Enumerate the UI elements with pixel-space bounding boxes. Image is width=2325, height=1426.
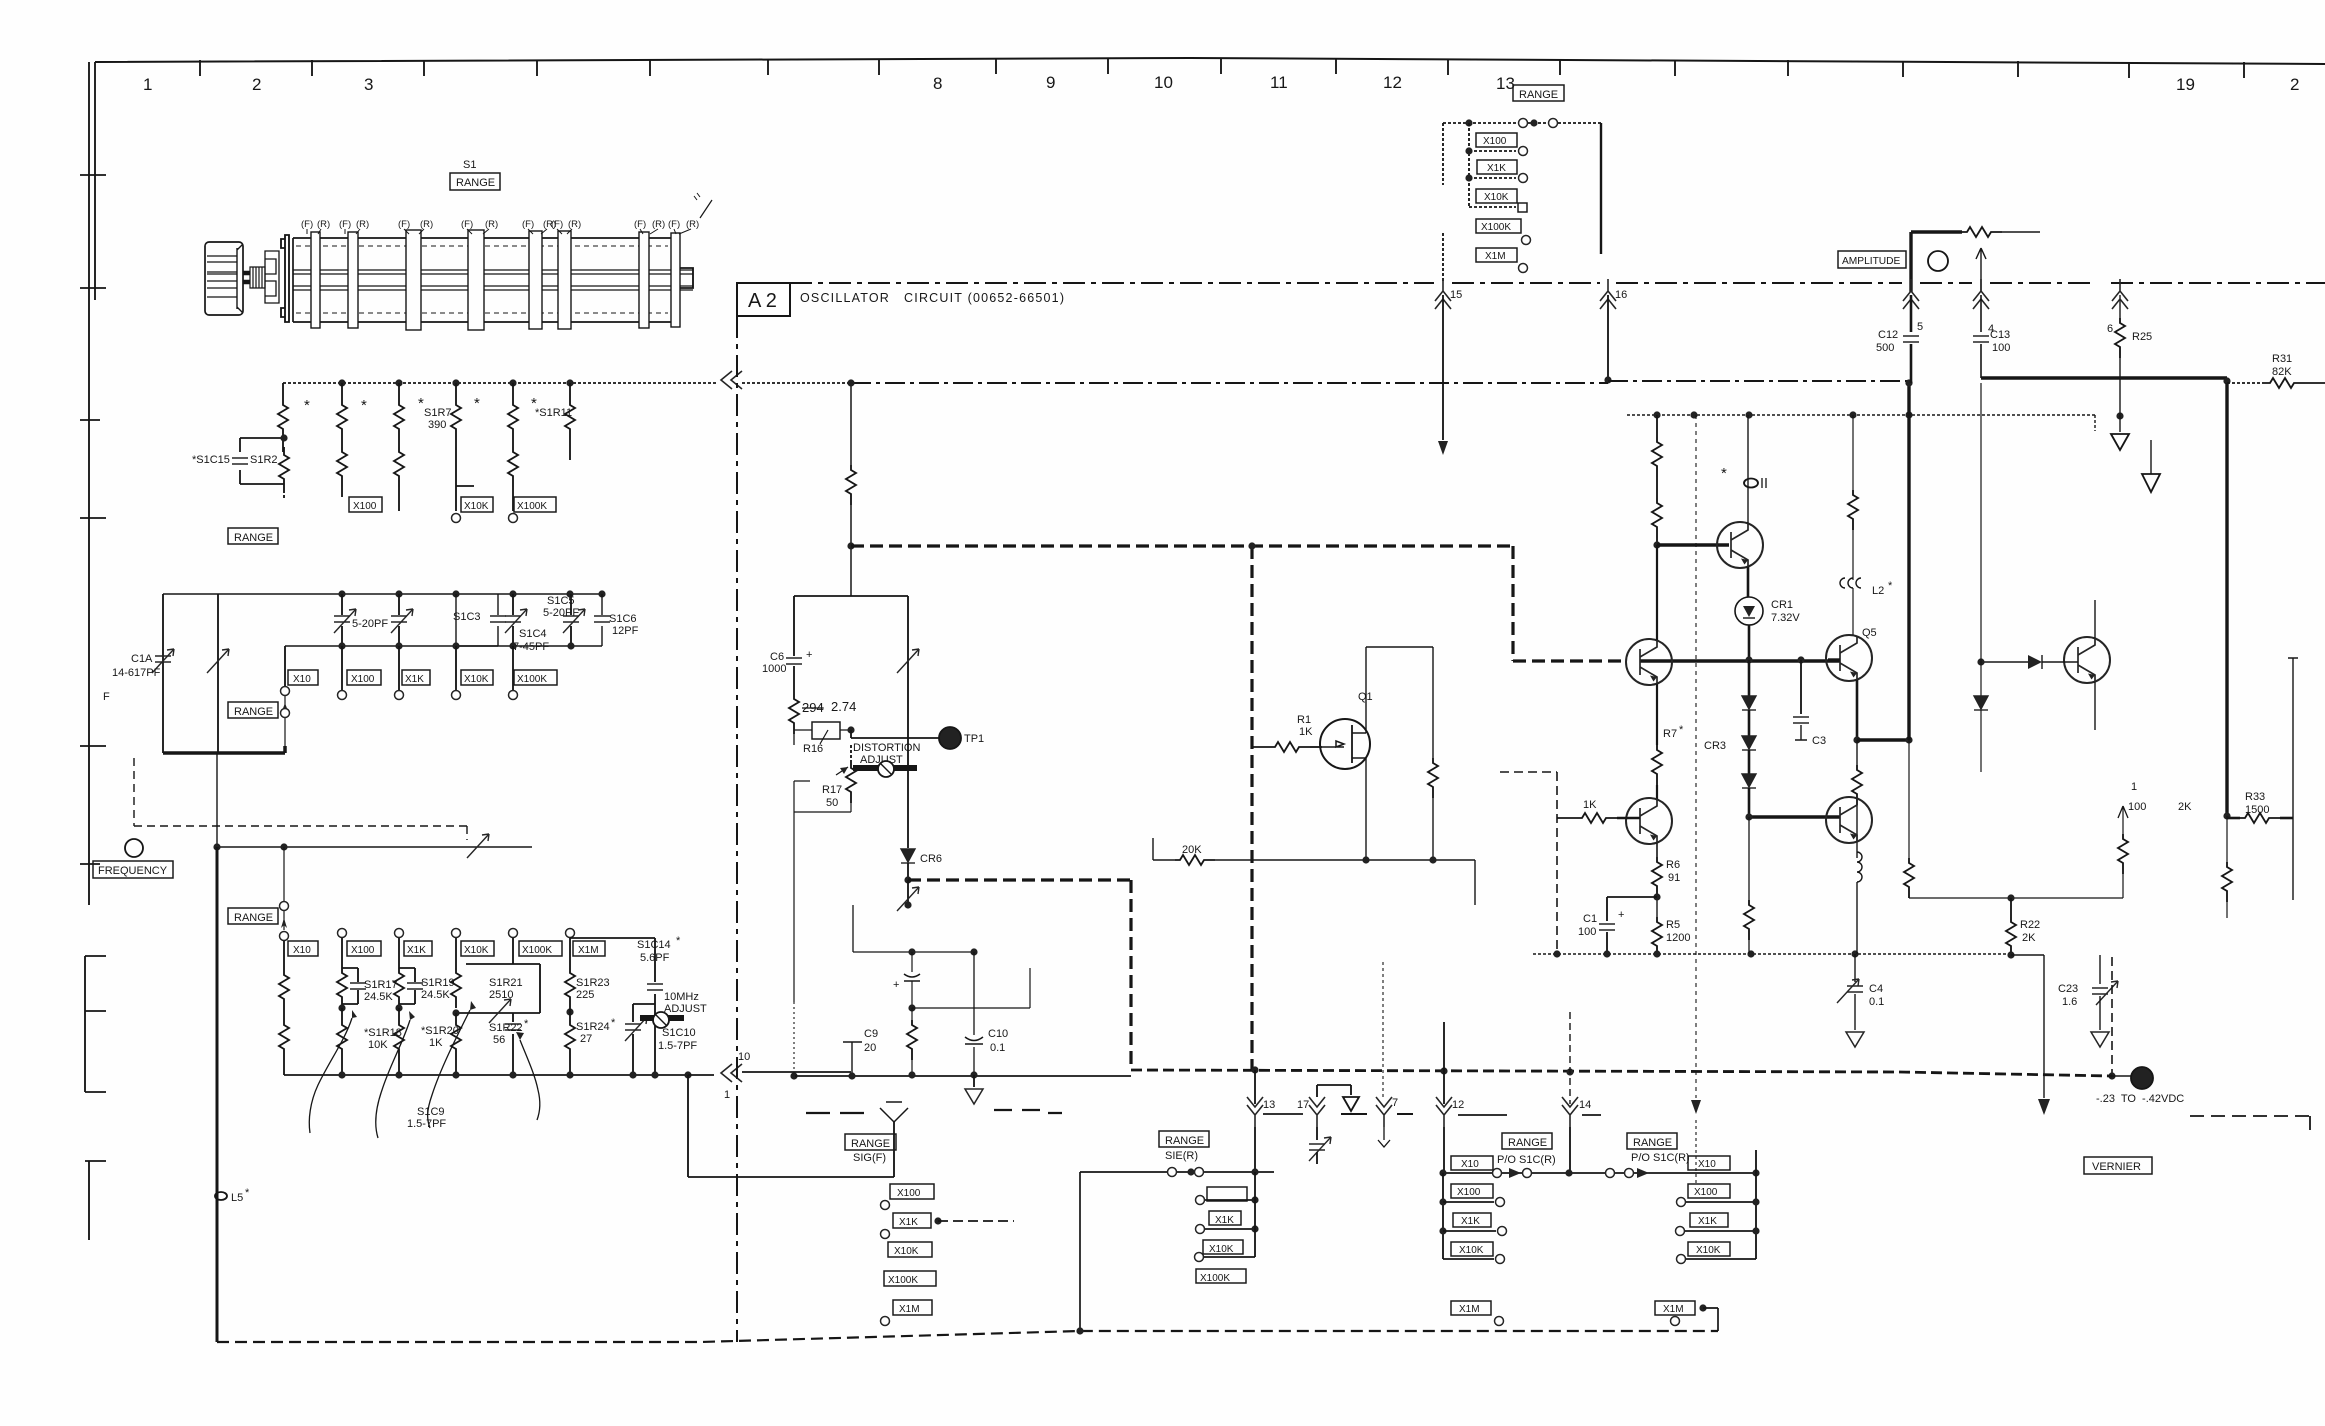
bank1 X1K — [1453, 1213, 1491, 1227]
leader line — [700, 200, 712, 218]
svg-text:7: 7 — [1392, 1097, 1398, 1109]
variable capacitor in tank — [897, 649, 919, 673]
wire: bank1 left column — [1442, 1173, 1444, 1259]
svg-text:*: * — [304, 397, 310, 414]
wiper contact pair on X10 column — [284, 696, 286, 746]
svg-text:FREQUENCY: FREQUENCY — [98, 865, 168, 877]
variable cap below CR6 node — [907, 880, 909, 905]
resistor R33 1500 — [2245, 791, 2269, 816]
svg-text:X10K: X10K — [1484, 192, 1509, 203]
label box X100 + contact — [1476, 133, 1517, 147]
svg-text:16: 16 — [1615, 289, 1627, 301]
svg-text:(R): (R) — [420, 219, 433, 230]
wire: SIG(F) return loop — [688, 1075, 894, 1177]
svg-text:X1K: X1K — [1215, 1215, 1234, 1226]
capacitor C6 1000 (electrolytic) — [786, 658, 802, 664]
svg-text:R22: R22 — [2020, 919, 2040, 931]
svg-text:X100K: X100K — [1481, 222, 1511, 233]
capacitor (electrolytic) x912 — [911, 952, 913, 972]
label box X100 — [349, 497, 382, 512]
capacitor S1C15 parallel box — [240, 438, 284, 484]
svg-text:X10K: X10K — [464, 501, 489, 512]
svg-text:C3: C3 — [1812, 735, 1826, 747]
svg-text:X100K: X100K — [1200, 1273, 1230, 1284]
svg-text:294: 294 — [802, 700, 824, 715]
DISTORTION ADJUST control — [853, 742, 920, 766]
rotor section bands — [311, 230, 680, 330]
wire: heavy vertical to L5 — [216, 847, 219, 1342]
capacitor C12 500 — [1910, 295, 1913, 332]
wire: ladder2 lower bus y=646 — [285, 645, 602, 647]
svg-text:RANGE: RANGE — [234, 532, 273, 544]
svg-text:P/O S1C(R): P/O S1C(R) — [1631, 1152, 1690, 1164]
svg-text:X100: X100 — [351, 945, 375, 956]
svg-text:2K: 2K — [2178, 801, 2192, 813]
trimmer S1C10 1.5-7PF — [633, 1004, 655, 1075]
svg-text:1200: 1200 — [1666, 932, 1690, 944]
svg-text:*: * — [524, 1018, 529, 1030]
resistor R6 91 — [1652, 857, 1662, 897]
svg-text:CR3: CR3 — [1704, 740, 1726, 752]
svg-text:(F): (F) — [301, 219, 313, 230]
svg-text:C6: C6 — [770, 651, 784, 663]
pin 15 chevron — [1435, 279, 1451, 309]
svg-text:S1C5: S1C5 — [547, 595, 575, 607]
node: -23 to -42VDC test point — [2111, 957, 2113, 1076]
resistor S1R18 10K — [338, 1004, 345, 1011]
inductor L5 — [215, 1192, 227, 1200]
switch SIG(F) contact dashes — [806, 1112, 864, 1114]
wire: top border ruler line — [95, 58, 2325, 64]
svg-text:50: 50 — [826, 797, 838, 809]
capacitor C13 100 — [1980, 295, 1982, 332]
svg-text:C9: C9 — [864, 1028, 878, 1040]
wire: Q1 source — [1365, 758, 1367, 860]
wire: X1K wiper link — [934, 1217, 941, 1224]
svg-text:1000: 1000 — [762, 663, 786, 675]
svg-text:7-45PF: 7-45PF — [513, 641, 549, 653]
svg-text:RANGE: RANGE — [851, 1138, 890, 1150]
svg-text:X10: X10 — [1461, 1159, 1479, 1170]
potentiometer element — [1911, 230, 1962, 233]
wire: TP1 stub — [851, 730, 939, 738]
svg-text:19: 19 — [2176, 75, 2195, 94]
svg-text:+: + — [806, 649, 812, 661]
svg-text:14: 14 — [1579, 1099, 1591, 1111]
label box RANGE P/O S1C(R) bank2 — [1627, 1133, 1677, 1149]
svg-text:C12: C12 — [1878, 329, 1898, 341]
wire: emitter ground bus y=954 — [1533, 953, 2012, 955]
svg-text:S1R21: S1R21 — [489, 977, 523, 989]
svg-text:0.1: 0.1 — [1869, 996, 1884, 1008]
wire: stub row y=1008 — [912, 968, 1030, 1008]
svg-text:C1: C1 — [1583, 913, 1597, 925]
trimmer cap x399 — [398, 594, 400, 646]
svg-text:1: 1 — [143, 75, 152, 94]
bank2 X1M with return to bus — [1655, 1301, 1695, 1315]
wire: heavy right column — [2225, 383, 2228, 816]
pin 7 — [1376, 1097, 1392, 1127]
resistor above Q5 — [1852, 415, 1854, 490]
pin 12 — [1443, 1022, 1445, 1104]
capacitor C1A section F (variable) — [162, 594, 164, 753]
capacitor C23 1.6 — [2099, 955, 2101, 984]
wire: Q2 collector to rail — [1747, 415, 1749, 523]
svg-text:*: * — [676, 935, 681, 947]
svg-text:X100K: X100K — [522, 945, 552, 956]
bank2 X100 — [1688, 1184, 1730, 1198]
transistor Q3 (upper left) — [1626, 639, 1672, 685]
switch S1 label — [463, 159, 476, 171]
svg-text:X10K: X10K — [1696, 1245, 1721, 1256]
svg-text:(R): (R) — [652, 219, 665, 230]
svg-text:R31: R31 — [2272, 353, 2292, 365]
svg-text:X10K: X10K — [1459, 1245, 1484, 1256]
svg-text:ADJUST: ADJUST — [664, 1003, 707, 1015]
svg-text:6: 6 — [2107, 323, 2113, 335]
svg-text:17: 17 — [1297, 1099, 1309, 1111]
wire: heavy link to supply column — [1857, 738, 1909, 741]
svg-text:15: 15 — [1450, 289, 1462, 301]
(F)(R) leader ticks — [307, 229, 691, 234]
svg-text:S1C14: S1C14 — [637, 939, 671, 951]
A2 assembly boundary (dash-dot) — [790, 282, 2325, 284]
wire: x456 L-stub to X10K contact — [456, 447, 474, 511]
node: drive junction — [213, 843, 220, 850]
resistor S1R11 — [512, 383, 514, 400]
bank1 X10K — [1451, 1242, 1493, 1256]
svg-text:5: 5 — [1917, 321, 1923, 333]
svg-text:+: + — [1618, 909, 1624, 921]
resistor R22 2K — [2010, 898, 2012, 917]
label box FREQUENCY — [93, 861, 173, 878]
inductor L2 lower half — [1857, 852, 1862, 882]
transistor Q4 (lower left) — [1626, 798, 1672, 844]
svg-text:-.23 TO -.42VDC: -.23 TO -.42VDC — [2096, 1093, 2184, 1105]
svg-text:13: 13 — [1263, 1099, 1275, 1111]
capacitor S1C6 12PF — [601, 594, 603, 646]
wiper contacts on X10 column — [283, 847, 285, 930]
resistor column x513 bottom — [508, 447, 518, 487]
svg-text:2K: 2K — [2022, 932, 2036, 944]
wire: bank2 contact row — [1569, 1172, 1756, 1174]
capacitor body — [293, 238, 672, 322]
svg-text:225: 225 — [576, 989, 594, 1001]
svg-text:0.1: 0.1 — [990, 1042, 1005, 1054]
resistor S1R24 27 — [566, 1008, 573, 1015]
wire: heavy base wire to Q2 — [1657, 543, 1729, 546]
svg-text:56: 56 — [493, 1034, 505, 1046]
svg-text:VERNIER: VERNIER — [2092, 1161, 2141, 1173]
wiper Y contact SIG(F) — [880, 1102, 908, 1122]
resistor 1K base feed — [1557, 817, 1577, 819]
wire: heavy bottom bar of C1A frame — [163, 746, 285, 753]
svg-text:12PF: 12PF — [612, 625, 639, 637]
pin 5 — [1903, 279, 1919, 309]
svg-text:R6: R6 — [1666, 859, 1680, 871]
pin 14 — [1569, 1012, 1571, 1104]
svg-text:5.6PF: 5.6PF — [640, 952, 670, 964]
svg-text:1K: 1K — [429, 1037, 443, 1049]
resistor Q6 emitter load — [1856, 740, 1858, 765]
svg-text:X1K: X1K — [1698, 1216, 1717, 1227]
svg-text:S1R24: S1R24 — [576, 1021, 610, 1033]
svg-text:11: 11 — [1270, 73, 1288, 92]
svg-text:X10: X10 — [293, 945, 311, 956]
wiper arrow pin4 — [1976, 248, 1986, 292]
svg-text:R17: R17 — [822, 784, 842, 796]
resistor S1R20 1K — [395, 1004, 402, 1011]
wire: R22 top link — [1909, 897, 2123, 899]
svg-text:13: 13 — [1496, 74, 1515, 93]
svg-text:*: * — [361, 397, 367, 414]
svg-text:500: 500 — [1876, 342, 1894, 354]
wire: Q3 emitter down — [1656, 684, 1658, 745]
wire: bus continues to board edge with connector 10 — [688, 1072, 851, 1075]
svg-text:C10: C10 — [988, 1028, 1008, 1040]
svg-text:C1A: C1A — [131, 653, 153, 665]
label box X1M + contact — [1476, 248, 1517, 262]
svg-text:S1C9: S1C9 — [417, 1106, 445, 1118]
S1 ganged capacitor mechanical drawing: knob — [205, 242, 243, 315]
svg-text:*: * — [611, 1017, 616, 1029]
svg-text:RANGE: RANGE — [1633, 1137, 1672, 1149]
svg-text:5-20PF: 5-20PF — [543, 607, 579, 619]
svg-text:X100: X100 — [1457, 1187, 1481, 1198]
svg-text:1.6: 1.6 — [2062, 996, 2077, 1008]
bank2 X10K — [1688, 1242, 1730, 1256]
shaft and nut — [243, 272, 250, 283]
wires: drops to range contacts — [285, 646, 513, 690]
transistor Q7 (output right) — [2064, 637, 2110, 683]
resistor S1R7 390 — [455, 383, 457, 400]
svg-text:*: * — [245, 1187, 250, 1199]
svg-text:X1K: X1K — [407, 945, 426, 956]
label RANGE SIG(F) — [845, 1134, 896, 1150]
oscillator tank frame — [794, 596, 908, 730]
svg-text:X10K: X10K — [464, 945, 489, 956]
svg-text:8: 8 — [933, 74, 942, 93]
svg-text:R1: R1 — [1297, 714, 1311, 726]
capacitor C9 20 — [843, 1042, 862, 1076]
svg-text:1.5-7PF: 1.5-7PF — [407, 1118, 446, 1130]
svg-text:*S1C15: *S1C15 — [192, 454, 230, 466]
wire: heavy negative supply bus — [1131, 1070, 2112, 1076]
svg-text:SIG(F): SIG(F) — [853, 1152, 886, 1164]
FREQUENCY control circle — [125, 839, 143, 857]
resistor x912 to bus — [911, 1008, 913, 1020]
svg-text:2510: 2510 — [489, 989, 513, 1001]
svg-text:100: 100 — [2128, 801, 2146, 813]
svg-text:S1C4: S1C4 — [519, 628, 547, 640]
svg-text:AMPLITUDE: AMPLITUDE — [1842, 256, 1901, 267]
svg-text:X100K: X100K — [517, 674, 547, 685]
svg-text:X100: X100 — [897, 1188, 921, 1199]
wire: pin15 stem down with arrow — [1442, 295, 1444, 440]
left border ticks — [80, 175, 106, 1240]
node dots on ladder1 bus — [338, 379, 345, 386]
svg-text:2.74: 2.74 — [831, 699, 856, 714]
empty selector box — [1207, 1187, 1247, 1201]
svg-text:X1K: X1K — [405, 674, 424, 685]
trimmer under 17 — [1316, 1127, 1318, 1140]
svg-text:7.32V: 7.32V — [1771, 612, 1800, 624]
svg-text:C13: C13 — [1990, 329, 2010, 341]
resistor S1R1 (x283 top) — [282, 383, 284, 400]
wire: bias rail y=415 — [1627, 415, 2095, 431]
ruler numbers — [143, 73, 2299, 94]
resistor on osc feed — [846, 465, 856, 505]
diode CR1 7.32V (zener in circle) — [1735, 597, 1763, 625]
svg-text:(R): (R) — [686, 219, 699, 230]
svg-text:*S1R11: *S1R11 — [535, 407, 572, 419]
wire: R22 return with arrow — [2011, 955, 2044, 1098]
svg-text:X10: X10 — [1698, 1159, 1716, 1170]
svg-text:*S1R20: *S1R20 — [421, 1025, 459, 1037]
wire: ladder2 top bus y=594 — [163, 593, 602, 595]
ground under C10 — [973, 1075, 975, 1087]
wire: top bank left stem — [1442, 123, 1444, 282]
svg-text:(F): (F) — [668, 219, 680, 230]
svg-text:RANGE: RANGE — [1165, 1135, 1204, 1147]
bank1 X100 — [1451, 1184, 1493, 1198]
label box RANGE (ladder1) — [228, 528, 278, 544]
svg-text:S1C10: S1C10 — [662, 1027, 696, 1039]
pin 16 chevron — [1600, 279, 1616, 309]
wire: SIE(R) contact row — [1080, 1171, 1274, 1173]
svg-text:X1K: X1K — [1461, 1216, 1480, 1227]
wire: heavy dashed vertical x=1252 — [1250, 546, 1253, 1070]
trimmer arm 100/2K — [2122, 806, 2124, 898]
variable capacitor arrow on drive line — [467, 834, 489, 858]
contact circle under X10K — [452, 514, 461, 523]
wire: bus x 795-1131 — [795, 1075, 1131, 1077]
svg-text:X1K: X1K — [899, 1217, 918, 1228]
10MHz adjust screw — [640, 1015, 684, 1021]
svg-text:+: + — [893, 979, 899, 991]
svg-text:S1R7: S1R7 — [424, 407, 452, 419]
front plate — [281, 235, 289, 322]
ground arrow mid — [2150, 440, 2152, 474]
svg-text:R25: R25 — [2132, 331, 2152, 343]
svg-text:X1M: X1M — [899, 1304, 920, 1315]
wire: dashed link C1A to tuning — [134, 758, 467, 840]
wire: Q4 emitter to R6 — [1656, 843, 1658, 857]
ruler tick marks — [200, 58, 2244, 78]
svg-text:1: 1 — [724, 1089, 730, 1101]
trimmer cap S1C4 7-45PF — [512, 594, 514, 646]
wire: heavy dashed feedback net y=546 — [851, 546, 1626, 661]
pin 17 — [1297, 1099, 1309, 1111]
label box RANGE (top right bank) — [1513, 85, 1564, 101]
svg-text:100: 100 — [1992, 342, 2010, 354]
svg-text:(R): (R) — [568, 219, 581, 230]
dash contacts — [1341, 1113, 1413, 1115]
trimmer R16 — [794, 730, 851, 745]
wire: bottom dashed bus — [217, 1331, 1718, 1342]
svg-text:3: 3 — [364, 75, 373, 94]
label box VERNIER — [2084, 1157, 2152, 1174]
svg-text:91: 91 — [1668, 872, 1680, 884]
svg-text:*: * — [474, 395, 480, 412]
capacitor C10 0.1 — [973, 952, 975, 1075]
svg-text:S1C6: S1C6 — [609, 613, 637, 625]
resistor below R33 node — [2226, 816, 2228, 862]
svg-text:9: 9 — [1046, 73, 1055, 92]
resistor R25 — [2119, 295, 2121, 318]
capacitor S1C14 5.6PF — [570, 938, 655, 1004]
wire: top bank feed row — [1443, 122, 1601, 124]
svg-text:X10K: X10K — [464, 674, 489, 685]
svg-text:12: 12 — [1383, 73, 1402, 92]
svg-text:SIE(R): SIE(R) — [1165, 1150, 1198, 1162]
wire: Q1 drain network — [1366, 647, 1433, 758]
svg-text:RANGE: RANGE — [234, 706, 273, 718]
capacitor C1A section R (variable) — [217, 594, 219, 753]
wire: right vertical — [2288, 658, 2298, 900]
wire: bank1 contact row — [1443, 1172, 1569, 1174]
svg-text:(R): (R) — [485, 219, 498, 230]
label box X100K + contact — [1476, 219, 1521, 233]
capacitor C1 100 — [1607, 897, 1657, 921]
wire: SIE(R) left leg to bottom bus — [1079, 1172, 1081, 1331]
wire: lower tank frame — [793, 781, 795, 1002]
svg-text:14-617PF: 14-617PF — [112, 667, 161, 679]
wire: frequency drive line y=847 — [217, 753, 532, 847]
svg-text:RANGE: RANGE — [456, 177, 495, 189]
svg-text:S1R23: S1R23 — [576, 977, 610, 989]
svg-text:1: 1 — [2131, 781, 2137, 793]
wire: pin16 stem to bus — [1607, 295, 1609, 380]
svg-text:RANGE: RANGE — [1519, 89, 1558, 101]
wire: y=952 node row — [853, 905, 974, 952]
svg-text:DISTORTION: DISTORTION — [853, 742, 920, 754]
svg-text:C4: C4 — [1869, 983, 1883, 995]
FET Q1 — [1320, 719, 1370, 769]
svg-text:12: 12 — [1452, 1099, 1464, 1111]
svg-text:(F): (F) — [398, 219, 410, 230]
wire: heavy top rail to R31 — [1981, 378, 2227, 383]
svg-text:RANGE: RANGE — [234, 912, 273, 924]
wire: Q7 leads — [2094, 600, 2096, 730]
resistor column x399 bottom — [394, 447, 404, 487]
wire: dashed feed x=1557 — [1500, 772, 1557, 954]
SIE(R) X1K row — [1196, 1196, 1205, 1205]
svg-text:1.5-7PF: 1.5-7PF — [658, 1040, 697, 1052]
resistor pair X10 column — [283, 941, 285, 970]
transistor Q5 — [1826, 635, 1872, 681]
svg-text:390: 390 — [428, 419, 446, 431]
svg-text:20K: 20K — [1182, 844, 1202, 856]
svg-text:24.5K: 24.5K — [364, 991, 393, 1003]
svg-text:20: 20 — [864, 1042, 876, 1054]
diode below — [1980, 662, 1982, 696]
resistor column x342 top — [341, 383, 343, 400]
resistor S1R23 225 — [569, 938, 571, 968]
wire: Q2 emitter to CR1 — [1747, 567, 1750, 597]
wire: dashed stub right of test point — [2190, 1116, 2310, 1130]
capacitor S1C3 — [456, 594, 498, 646]
resistor R1 1K — [1252, 746, 1270, 748]
wire: 20K line — [1153, 838, 1175, 860]
svg-text:10K: 10K — [368, 1039, 388, 1051]
wire: Q3 collector up — [1656, 545, 1658, 640]
wire: heavy bias bar y=660 — [1640, 659, 1840, 662]
svg-text:X10K: X10K — [894, 1246, 919, 1257]
wire: ladder3 bottom bus — [284, 1074, 688, 1076]
svg-text:F: F — [103, 691, 110, 703]
(F)(R) terminal labels — [301, 219, 699, 230]
